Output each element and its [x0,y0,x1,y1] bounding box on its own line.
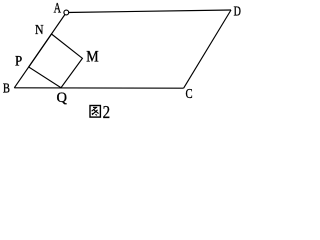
svg-text:C: C [186,86,193,101]
wire side AD [66,10,231,13]
wire side BC [14,87,183,89]
svg-text:N: N [35,23,44,38]
svg-text:P: P [15,54,22,70]
caption 图2 : hand-drawn CJK glyph 图 [90,106,100,118]
square NMQP [29,34,83,88]
svg-text:Q: Q [57,90,68,106]
geometry figure: parallelogram ABCD with inscribed square NMQP [0,0,250,122]
svg-text:D: D [234,4,241,19]
wire side CD [184,10,231,88]
wire side AB [14,13,66,88]
svg-text:2: 2 [103,102,111,122]
node A circle marker [64,10,69,15]
svg-text:M: M [86,48,99,65]
svg-text:A: A [54,1,62,17]
svg-text:B: B [3,80,10,95]
